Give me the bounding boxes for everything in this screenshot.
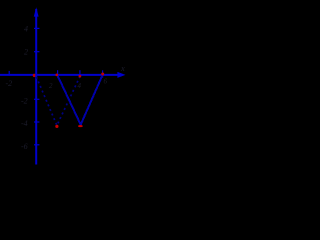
svg-text:2: 2 [49, 82, 53, 90]
svg-text:x: x [120, 63, 125, 73]
svg-text:2: 2 [24, 48, 28, 57]
svg-text:-2: -2 [21, 96, 28, 105]
svg-text:-2: -2 [6, 79, 13, 88]
svg-text:-4: -4 [21, 119, 28, 128]
svg-text:6: 6 [104, 78, 108, 86]
svg-text:4: 4 [24, 24, 28, 33]
svg-text:-6: -6 [21, 142, 28, 151]
svg-text:4: 4 [78, 82, 82, 90]
